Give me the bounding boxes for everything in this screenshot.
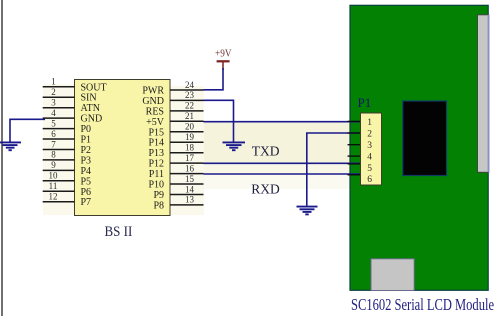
- left page border line: [1, 0, 3, 316]
- svg-text:PWR: PWR: [142, 86, 164, 97]
- ground GND2 (left edge): [0, 142, 21, 150]
- pin 14 (P9): [153, 184, 203, 201]
- svg-text:6: 6: [367, 175, 372, 185]
- svg-text:P1: P1: [81, 135, 92, 146]
- pin 18 (P13): [148, 143, 203, 160]
- svg-text:P7: P7: [81, 197, 92, 208]
- pin 10 (P5): [43, 171, 91, 188]
- svg-text:2: 2: [367, 130, 372, 140]
- pin 19 (P14): [148, 132, 203, 149]
- pin 1 (SOUT): [43, 77, 107, 94]
- svg-text:BS II: BS II: [105, 224, 133, 240]
- pin 6 (P1): [43, 129, 91, 146]
- svg-text:4: 4: [367, 153, 372, 163]
- svg-text:11: 11: [49, 181, 58, 191]
- svg-text:14: 14: [185, 184, 195, 194]
- svg-text:P2: P2: [81, 145, 92, 156]
- wire RXD: pin16 to P1.6: [204, 173, 361, 175]
- svg-text:5: 5: [367, 164, 372, 174]
- svg-text:SC1602 Serial LCD Module: SC1602 Serial LCD Module: [351, 295, 494, 314]
- svg-text:ATN: ATN: [81, 103, 100, 114]
- svg-text:22: 22: [185, 101, 194, 111]
- pin 3 (ATN): [43, 98, 100, 115]
- svg-text:P14: P14: [148, 138, 164, 149]
- pin 11 (P6): [43, 181, 91, 198]
- svg-text:SOUT: SOUT: [81, 82, 107, 93]
- LCD display window (black): [403, 101, 447, 176]
- svg-text:10: 10: [49, 171, 59, 181]
- svg-text:6: 6: [51, 129, 56, 139]
- pin 12 (P7): [43, 192, 91, 209]
- pin 4 (GND): [43, 108, 102, 125]
- svg-text:1: 1: [367, 118, 372, 128]
- pin 16 (P11): [149, 163, 204, 180]
- svg-text:P5: P5: [81, 176, 92, 187]
- svg-text:7: 7: [51, 139, 56, 149]
- power +9V symbol: [215, 48, 232, 70]
- svg-text:24: 24: [185, 80, 195, 90]
- pin 7 (P2): [43, 139, 91, 156]
- svg-text:P3: P3: [81, 155, 92, 166]
- pin 13 (P8): [153, 195, 203, 212]
- LCD bezel side strip: [478, 15, 490, 173]
- svg-text:18: 18: [185, 143, 195, 153]
- svg-text:13: 13: [185, 195, 195, 205]
- connector P1 pin stubs: [348, 121, 361, 174]
- svg-text:P11: P11: [149, 169, 164, 180]
- svg-text:P0: P0: [81, 124, 92, 135]
- svg-text:3: 3: [367, 141, 372, 151]
- svg-text:RES: RES: [146, 106, 164, 117]
- wire +5V: pin21 to P1.1: [204, 121, 361, 123]
- svg-text:16: 16: [185, 163, 195, 173]
- pin 20 (P15): [148, 122, 203, 139]
- svg-text:SIN: SIN: [81, 93, 97, 104]
- pin 17 (P12): [148, 153, 203, 170]
- svg-text:P13: P13: [148, 148, 164, 159]
- jpeg bleed cream bands (background tint): [43, 84, 350, 215]
- svg-text:3: 3: [51, 98, 56, 108]
- svg-text:P9: P9: [153, 190, 164, 201]
- svg-text:20: 20: [185, 122, 195, 132]
- svg-text:17: 17: [185, 153, 195, 163]
- ground GND3 (bottom middle): [297, 207, 318, 215]
- pin 9 (P4): [43, 160, 91, 177]
- pin 22 (RES): [146, 101, 204, 118]
- svg-text:2: 2: [51, 87, 56, 97]
- svg-text:GND: GND: [142, 96, 164, 107]
- svg-text:P8: P8: [153, 200, 164, 211]
- svg-text:5: 5: [51, 118, 56, 128]
- svg-text:1: 1: [51, 77, 56, 87]
- svg-text:RXD: RXD: [251, 182, 280, 197]
- svg-text:P4: P4: [81, 166, 92, 177]
- wire pin4 GND to left ground: [10, 119, 45, 142]
- connector P1 body: [361, 113, 382, 185]
- svg-text:P1: P1: [358, 95, 372, 110]
- svg-text:+9V: +9V: [215, 48, 232, 60]
- pin 5 (P0): [43, 118, 91, 135]
- svg-text:12: 12: [49, 192, 58, 202]
- svg-text:P15: P15: [148, 127, 164, 138]
- LCD module board (green PCB): [350, 5, 488, 290]
- svg-text:8: 8: [51, 150, 56, 160]
- svg-text:+5V: +5V: [146, 117, 165, 128]
- svg-text:GND: GND: [81, 114, 103, 125]
- pin 24 (PWR): [142, 80, 203, 97]
- wire pin23 to ground GND1: [204, 100, 234, 142]
- pin 8 (P3): [43, 150, 91, 167]
- svg-text:21: 21: [185, 111, 194, 121]
- pin 15 (P10): [148, 174, 203, 191]
- IC U1 BS2 body: [75, 80, 171, 216]
- svg-text:23: 23: [185, 90, 195, 100]
- svg-text:P10: P10: [148, 180, 164, 191]
- svg-text:4: 4: [51, 108, 56, 118]
- wire TXD: pin17 to P1.5: [204, 162, 361, 164]
- svg-text:TXD: TXD: [252, 144, 280, 159]
- svg-text:9: 9: [51, 160, 56, 170]
- pin 23 (GND): [142, 90, 203, 107]
- LCD backpack component (gray): [371, 259, 414, 291]
- wire pin24 to +9V: [204, 68, 224, 90]
- pin 21 (+5V): [146, 111, 203, 128]
- pin 2 (SIN): [43, 87, 97, 104]
- svg-text:15: 15: [185, 174, 195, 184]
- svg-text:P6: P6: [81, 187, 92, 198]
- ground GND1 (below pin23): [223, 142, 246, 150]
- svg-text:19: 19: [185, 132, 195, 142]
- svg-text:P12: P12: [148, 159, 164, 170]
- wire P1.2 to ground (corner): [307, 133, 361, 206]
